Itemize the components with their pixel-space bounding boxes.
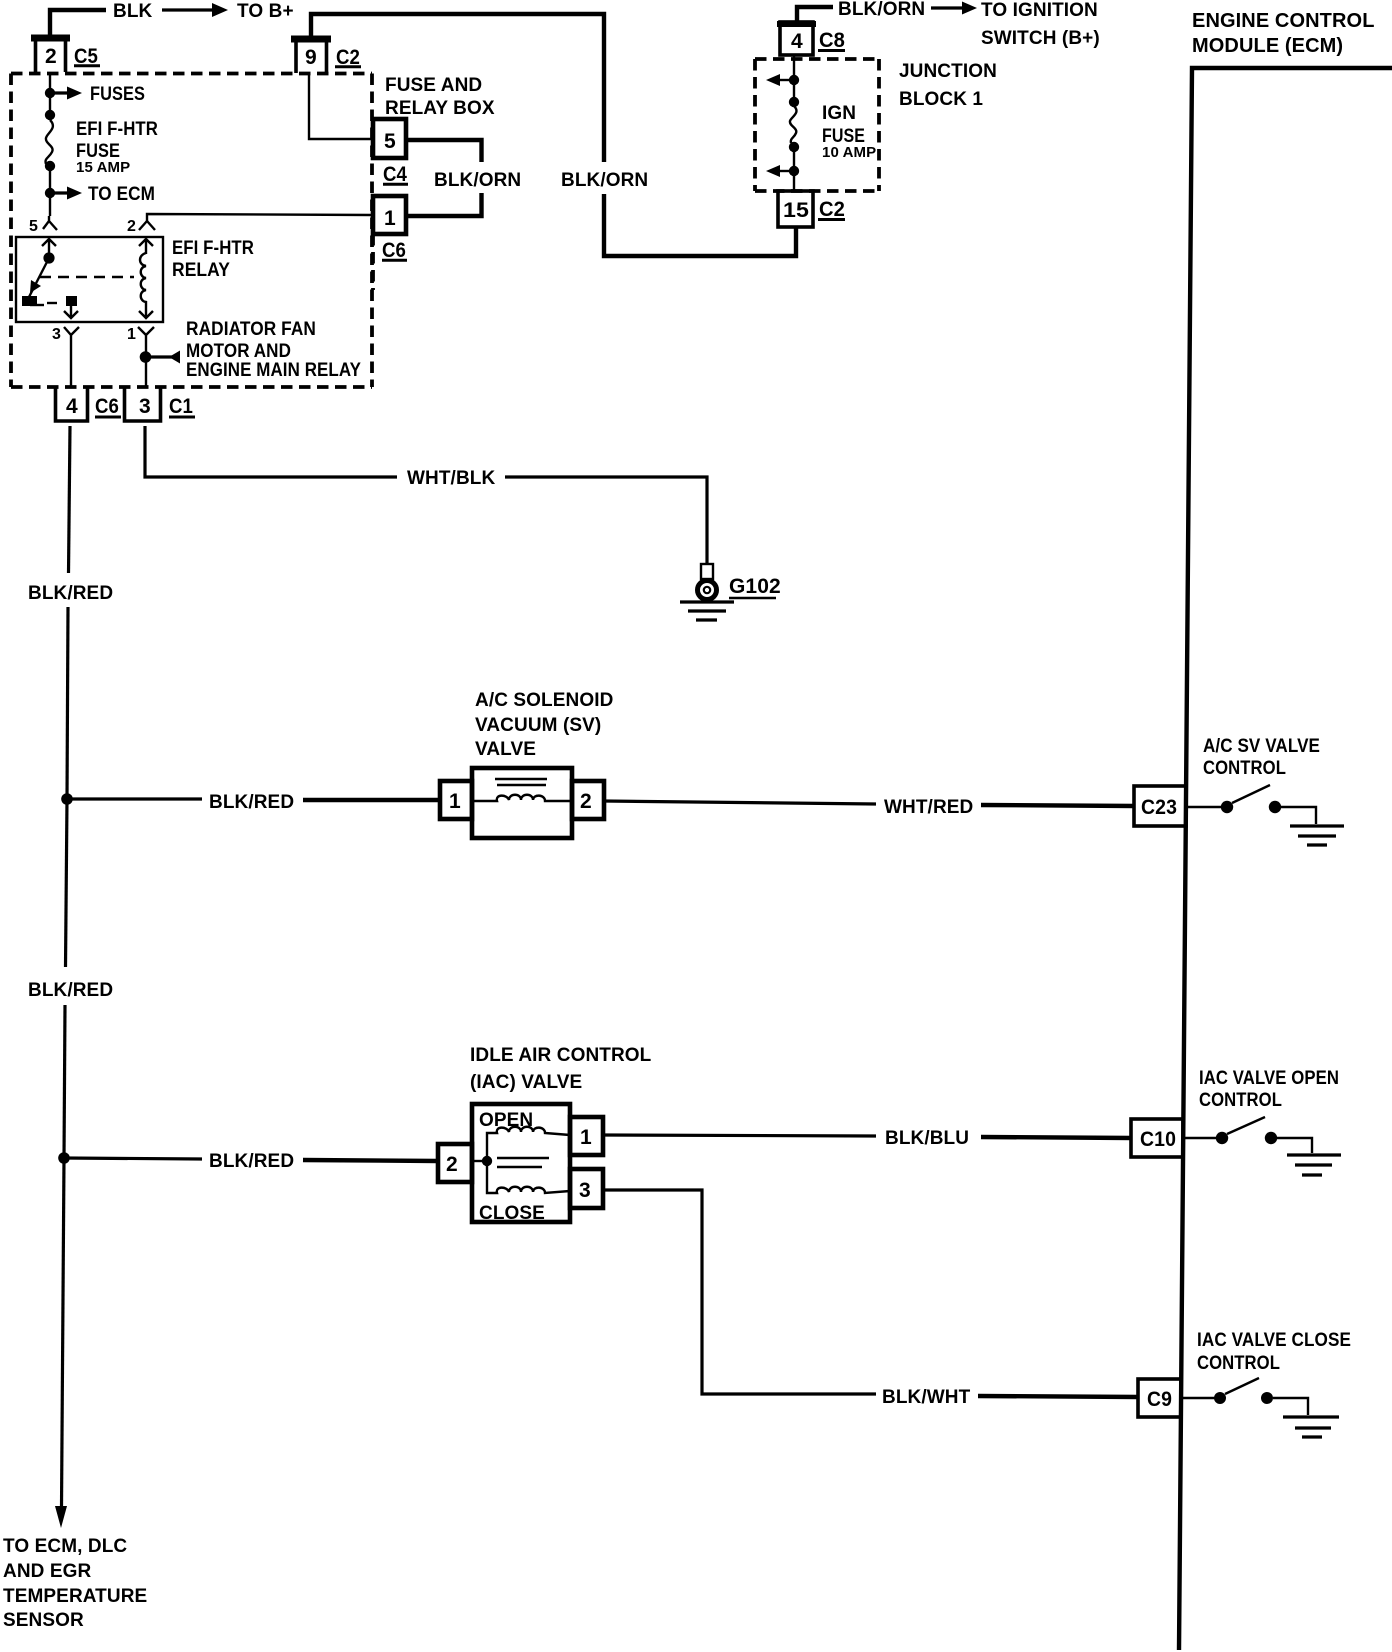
svg-text:IDLE AIR CONTROL: IDLE AIR CONTROL xyxy=(470,1045,652,1066)
wire BLK/BLU xyxy=(603,1135,876,1136)
arrow to ECM DLC EGR xyxy=(55,1506,67,1528)
IAC valve pin 3 box xyxy=(570,1169,603,1208)
node switch contact xyxy=(1261,1392,1273,1404)
wire BLK/RED vertical segment 1 xyxy=(69,426,71,573)
svg-text:C6: C6 xyxy=(382,239,406,262)
relay K1 EFI F-HTR relay outline xyxy=(16,237,163,322)
node switch contact xyxy=(1269,801,1281,813)
connector C6 pin 4 xyxy=(56,386,88,421)
svg-text:VALVE: VALVE xyxy=(475,739,536,760)
svg-text:TO IGNITION: TO IGNITION xyxy=(981,0,1098,21)
svg-text:1: 1 xyxy=(127,326,136,343)
svg-text:BLK: BLK xyxy=(113,1,153,22)
node xyxy=(45,110,55,120)
svg-text:FUSE AND: FUSE AND xyxy=(385,75,482,96)
node xyxy=(45,161,55,171)
relay common contact arrow up (pin 5 side) xyxy=(42,239,56,254)
svg-text:1: 1 xyxy=(449,790,461,813)
IAC armature lines xyxy=(497,1157,549,1159)
svg-text:TEMPERATURE: TEMPERATURE xyxy=(3,1586,147,1607)
wire from C5 down xyxy=(49,72,51,93)
junction block 1 dashed outline xyxy=(755,59,879,191)
ground symbol A/C SV xyxy=(1290,824,1344,827)
wire inside ECM xyxy=(1186,806,1222,808)
node xyxy=(789,75,799,85)
svg-text:RELAY: RELAY xyxy=(172,260,230,281)
node switch contact xyxy=(1214,1392,1226,1404)
A/C valve pin 1 box xyxy=(440,781,472,819)
svg-text:A/C SOLENOID: A/C SOLENOID xyxy=(475,690,613,711)
svg-text:C9: C9 xyxy=(1147,1388,1172,1411)
svg-text:3: 3 xyxy=(52,326,61,343)
svg-text:(IAC) VALVE: (IAC) VALVE xyxy=(470,1072,582,1093)
arrow left feed xyxy=(778,79,794,81)
svg-text:BLK/BLU: BLK/BLU xyxy=(885,1128,969,1149)
relay coil xyxy=(140,253,146,306)
fuse and relay box dashed outline xyxy=(11,74,372,388)
svg-text:BLK/ORN: BLK/ORN xyxy=(434,170,521,191)
svg-text:BLK/ORN: BLK/ORN xyxy=(838,0,925,20)
wire WHT/RED continues xyxy=(981,805,1135,806)
wire BLK/ORN from C4 pin5 to C6 pin1 xyxy=(406,140,482,216)
node xyxy=(789,97,799,107)
relay contact for pin 3 xyxy=(66,296,77,306)
wire BLK/RED vertical segment 2 xyxy=(67,607,68,799)
arrow left feed 2 xyxy=(778,170,794,172)
svg-text:ENGINE MAIN RELAY: ENGINE MAIN RELAY xyxy=(186,360,361,381)
arrow to ignition switch xyxy=(931,6,965,9)
relay switch arm xyxy=(29,258,49,297)
wire xyxy=(793,143,795,191)
svg-text:RELAY BOX: RELAY BOX xyxy=(385,98,495,119)
svg-text:ENGINE CONTROL: ENGINE CONTROL xyxy=(1192,10,1375,32)
svg-text:C23: C23 xyxy=(1141,796,1177,819)
node TO ECM junction xyxy=(45,188,55,198)
svg-text:3: 3 xyxy=(139,395,151,418)
svg-text:MOTOR AND: MOTOR AND xyxy=(186,341,291,362)
svg-text:WHT/RED: WHT/RED xyxy=(884,797,973,818)
dashed right edge below C6 xyxy=(371,234,375,290)
node junction to A/C solenoid xyxy=(61,793,73,805)
svg-text:BLK/ORN: BLK/ORN xyxy=(561,170,648,191)
svg-text:BLK/RED: BLK/RED xyxy=(28,583,113,604)
ECM outline xyxy=(1179,68,1392,1650)
svg-text:CONTROL: CONTROL xyxy=(1197,1353,1280,1374)
IAC internal node xyxy=(472,1160,487,1162)
svg-text:BLOCK 1: BLOCK 1 xyxy=(899,89,983,110)
svg-text:SENSOR: SENSOR xyxy=(3,1610,84,1631)
switch arm A/C SV xyxy=(1232,785,1270,803)
wire WHT/BLK to ground xyxy=(505,477,707,564)
wire to ground xyxy=(1273,1398,1308,1415)
node switch contact xyxy=(1216,1132,1228,1144)
connector C9 xyxy=(1138,1379,1181,1417)
node on pin 1 wire xyxy=(140,351,152,363)
node switch contact xyxy=(1265,1132,1277,1144)
wire BLK/ORN ignition top xyxy=(797,7,833,22)
svg-text:C8: C8 xyxy=(819,29,845,52)
svg-text:3: 3 xyxy=(579,1179,591,1202)
ground G102 ring terminal xyxy=(698,581,717,600)
svg-text:A/C SV VALVE: A/C SV VALVE xyxy=(1203,736,1320,757)
svg-text:IAC VALVE CLOSE: IAC VALVE CLOSE xyxy=(1197,1330,1351,1351)
svg-text:CONTROL: CONTROL xyxy=(1199,1090,1282,1111)
wire WHT/RED xyxy=(604,801,876,804)
IAC valve pin 2 box xyxy=(438,1144,472,1182)
svg-text:1: 1 xyxy=(384,207,396,230)
wire BLK/WHT from pin 3 xyxy=(603,1190,876,1394)
svg-text:VACUUM (SV): VACUUM (SV) xyxy=(475,715,601,736)
connector C10 xyxy=(1131,1119,1183,1157)
A/C valve pin 2 box xyxy=(572,781,604,819)
valve plate lines xyxy=(495,778,547,780)
svg-text:C6: C6 xyxy=(95,395,119,418)
connector C5 pin 2 xyxy=(36,39,66,72)
svg-text:TO ECM: TO ECM xyxy=(88,184,155,205)
svg-text:9: 9 xyxy=(305,46,317,69)
arrow from radiator fan relay feed xyxy=(147,355,172,358)
svg-text:5: 5 xyxy=(29,218,38,235)
node xyxy=(789,166,799,176)
wire BLK from connector C5 to B+ xyxy=(50,10,106,36)
relay arrow down to pin 3 xyxy=(64,306,78,318)
relay linkage dashed xyxy=(40,276,134,278)
svg-text:FUSES: FUSES xyxy=(90,84,145,105)
node switch contact xyxy=(1221,801,1233,813)
svg-text:2: 2 xyxy=(446,1153,458,1176)
svg-text:JUNCTION: JUNCTION xyxy=(899,61,997,82)
svg-text:15: 15 xyxy=(783,199,809,222)
wire xyxy=(49,166,51,216)
relay switch pivot node xyxy=(43,252,54,263)
svg-text:2: 2 xyxy=(45,45,57,68)
wire BLK/RED vertical segment 4 xyxy=(64,1005,65,1158)
IAC valve body xyxy=(472,1104,570,1222)
svg-text:2: 2 xyxy=(127,218,136,235)
connector C1 pin 3 xyxy=(125,386,161,421)
svg-text:WHT/BLK: WHT/BLK xyxy=(407,468,495,489)
ground symbol IAC close xyxy=(1283,1415,1339,1418)
svg-text:SWITCH (B+): SWITCH (B+) xyxy=(981,28,1100,49)
arrow to B+ xyxy=(162,8,216,11)
svg-text:EFI F-HTR: EFI F-HTR xyxy=(172,238,254,259)
ground G102 bolt xyxy=(701,564,713,579)
switch arm IAC close xyxy=(1225,1378,1259,1394)
ground G102 symbol xyxy=(680,600,734,603)
svg-text:CLOSE: CLOSE xyxy=(479,1203,545,1224)
wire from pin 9 to C4 pin 5 xyxy=(309,73,372,139)
svg-text:2: 2 xyxy=(580,790,592,813)
connector C8 pin 4 xyxy=(780,22,813,55)
svg-text:IAC VALVE OPEN: IAC VALVE OPEN xyxy=(1199,1068,1339,1089)
node fuses junction xyxy=(45,88,55,98)
svg-text:RADIATOR FAN: RADIATOR FAN xyxy=(186,319,316,340)
svg-text:TO B+: TO B+ xyxy=(237,1,294,22)
terminal pin 5 of relay xyxy=(43,216,57,230)
connector C2 pin 15 xyxy=(778,191,813,227)
wire WHT/BLK from C1 xyxy=(145,426,397,477)
IAC open coil xyxy=(487,1127,570,1161)
connector C23 xyxy=(1134,786,1186,826)
svg-text:MODULE (ECM): MODULE (ECM) xyxy=(1192,35,1343,57)
svg-text:4: 4 xyxy=(66,395,78,418)
IAC close coil xyxy=(487,1161,570,1193)
relay coil arrow up (pin 2 side) xyxy=(139,239,153,254)
wire BLK/ORN to junction block xyxy=(604,194,796,256)
svg-text:IGN: IGN xyxy=(822,103,856,124)
connector C6 pin 1 xyxy=(373,196,406,234)
switch arm IAC open xyxy=(1227,1117,1265,1134)
svg-text:C2: C2 xyxy=(819,198,845,221)
wire BLK/RED vertical segment 3 xyxy=(66,799,68,967)
relay linkage dash 2 xyxy=(47,302,62,304)
wire BLK/RED to A/C valve xyxy=(67,797,202,800)
fuse IGN 10 AMP (squiggle) xyxy=(790,106,797,143)
wire BLK/RED continues xyxy=(303,1160,438,1161)
IAC valve pin 1 box xyxy=(570,1117,603,1155)
wire inside ECM xyxy=(1183,1137,1217,1139)
connector C4 pin 5 xyxy=(373,119,406,158)
svg-text:10 AMP: 10 AMP xyxy=(822,144,876,161)
svg-text:CONTROL: CONTROL xyxy=(1203,758,1286,779)
svg-text:15 AMP: 15 AMP xyxy=(76,159,130,176)
svg-text:1: 1 xyxy=(580,1126,592,1149)
wire inside ECM xyxy=(1181,1397,1215,1399)
svg-text:4: 4 xyxy=(791,30,803,53)
svg-text:G102: G102 xyxy=(729,575,781,598)
node junction to IAC valve xyxy=(58,1152,70,1164)
svg-text:5: 5 xyxy=(384,130,396,153)
svg-text:EFI F-HTR: EFI F-HTR xyxy=(76,119,158,140)
wire BLK/RED continues xyxy=(303,798,440,802)
terminal pin 3 of relay xyxy=(64,327,79,388)
fuse EFI F-HTR (squiggle) xyxy=(46,120,53,164)
wire BLK/BLU continues xyxy=(981,1137,1132,1138)
arrow to FUSES xyxy=(50,91,70,94)
wire BLK/WHT continues xyxy=(978,1396,1139,1397)
wire to ground xyxy=(1281,807,1316,824)
terminal pin 1 of relay xyxy=(138,327,154,388)
ground symbol IAC open xyxy=(1287,1153,1341,1156)
svg-text:C10: C10 xyxy=(1140,1128,1176,1151)
svg-text:BLK/RED: BLK/RED xyxy=(28,980,113,1001)
svg-text:TO ECM, DLC: TO ECM, DLC xyxy=(3,1536,127,1557)
svg-text:AND EGR: AND EGR xyxy=(3,1561,91,1582)
terminal pin 2 of relay xyxy=(139,221,155,230)
solenoid valve SV body xyxy=(472,768,572,838)
arrow TO ECM xyxy=(50,191,70,194)
wire xyxy=(49,93,51,120)
wire BLK/RED to IAC valve xyxy=(64,1158,202,1159)
solenoid coil xyxy=(472,795,572,801)
svg-text:BLK/RED: BLK/RED xyxy=(209,1151,294,1172)
node xyxy=(789,142,799,152)
wire to ground xyxy=(1277,1138,1312,1153)
relay contact (pin 3 side lower-left) xyxy=(22,296,37,306)
svg-text:BLK/RED: BLK/RED xyxy=(209,792,294,813)
wire inside junction block xyxy=(793,55,795,106)
svg-text:C1: C1 xyxy=(169,395,193,418)
connector C2 pin 9 xyxy=(296,40,327,73)
wire BLK/ORN from C2 pin 9 top xyxy=(311,14,604,162)
svg-text:BLK/WHT: BLK/WHT xyxy=(882,1387,971,1408)
wire BLK/RED vertical segment 5 xyxy=(62,1158,65,1507)
wire from C6 pin1 to relay pin 2 xyxy=(147,214,372,221)
svg-text:C4: C4 xyxy=(383,163,407,186)
relay arrow down to pin 1 xyxy=(139,306,153,318)
